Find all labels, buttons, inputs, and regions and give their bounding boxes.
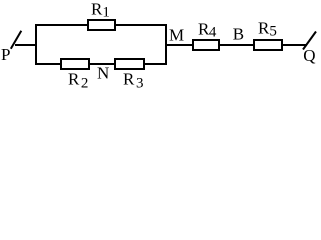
- wire R4 to R5: [218, 44, 256, 46]
- resistor R4: [193, 40, 219, 50]
- wire M to R4: [166, 44, 195, 46]
- svg-text:R1: R1: [91, 0, 110, 21]
- terminal P slash: [11, 31, 21, 49]
- svg-text:B: B: [233, 25, 244, 44]
- svg-text:R5: R5: [258, 19, 277, 40]
- resistor R3: [115, 59, 144, 69]
- svg-text:R4: R4: [198, 20, 217, 41]
- wire top branch: [35, 24, 167, 26]
- terminal Q slash: [303, 32, 316, 50]
- wire bottom branch: [35, 63, 167, 65]
- svg-text:N: N: [97, 64, 109, 83]
- wire P lead to left junction: [15, 44, 37, 46]
- svg-text:M: M: [169, 26, 184, 45]
- wire R5 to Q: [281, 44, 307, 46]
- wire left vertical: [35, 24, 37, 65]
- svg-text:Q: Q: [303, 46, 315, 65]
- svg-text:P: P: [1, 45, 10, 64]
- resistor R5: [254, 40, 282, 50]
- resistor R1: [88, 20, 115, 30]
- wire right vertical: [165, 24, 167, 65]
- svg-text:R2: R2: [68, 70, 88, 92]
- svg-text:R3: R3: [123, 70, 144, 92]
- resistor R2: [61, 59, 89, 69]
